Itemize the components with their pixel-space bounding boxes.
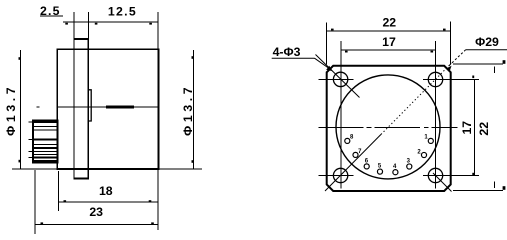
svg-text:4-Φ3: 4-Φ3 [273, 45, 301, 59]
corner hole bottom-right [428, 168, 442, 182]
dimension line 12.5 / 2.5 [63, 12, 159, 49]
texts of right view [273, 15, 499, 135]
wire: rear contact pins box [29, 121, 58, 163]
top dimension 17 [341, 49, 436, 51]
diagonal centre line [325, 63, 452, 191]
big circle [336, 75, 440, 179]
corner hole top-left [333, 72, 347, 86]
svg-text:Φ29: Φ29 [475, 35, 499, 49]
dimension 2.5 (shelf + leader) [40, 15, 63, 17]
corner hole bottom-left [333, 168, 347, 182]
svg-text:22: 22 [477, 122, 491, 136]
leader 4-phi3 [272, 58, 332, 70]
contact pin 4 [393, 170, 398, 175]
svg-text:18: 18 [99, 184, 113, 198]
contact pin 6 [364, 164, 369, 169]
contact pin 7 [353, 152, 358, 157]
connector body outline [57, 49, 158, 169]
bottom dimensions 18 and 23 [35, 169, 158, 234]
contact pin 5 [377, 169, 382, 174]
svg-text:12.5: 12.5 [108, 5, 137, 19]
diagonal centre line of bottom-right hole [433, 173, 452, 192]
ticks of top dimensions [65, 23, 152, 25]
horizontal centre line [319, 126, 458, 128]
svg-text:2.5: 2.5 [40, 4, 61, 18]
texts of left view [4, 4, 195, 219]
pin number labels [350, 135, 428, 170]
top dimension 22 [327, 22, 451, 65]
right dimension 22 [453, 64, 503, 191]
dimension phi13.7 right [158, 50, 202, 169]
dimension phi13.7 left [12, 50, 57, 169]
contact pin 8 [345, 138, 350, 143]
flange plate (edge view) [73, 39, 89, 178]
boss step on flange right side [88, 90, 91, 121]
svg-text:22: 22 [382, 15, 396, 29]
right dimension 17 [474, 80, 476, 176]
svg-text:Φ13.7: Φ13.7 [4, 84, 18, 136]
centre line of side view [37, 106, 159, 108]
svg-text:23: 23 [89, 205, 103, 219]
hole centre lines [319, 41, 480, 189]
contact pin 3 [407, 164, 412, 169]
svg-text:Φ13.7: Φ13.7 [181, 84, 195, 136]
contact pin 2 [421, 152, 426, 157]
diagonal centre line of top-left hole [316, 55, 360, 98]
square flange with chamfered corners [327, 66, 451, 191]
corner hole top-right [428, 72, 442, 86]
contact pin 1 [428, 138, 433, 143]
svg-text:17: 17 [382, 35, 396, 49]
leader phi29 [449, 50, 507, 66]
svg-text:17: 17 [460, 121, 474, 135]
